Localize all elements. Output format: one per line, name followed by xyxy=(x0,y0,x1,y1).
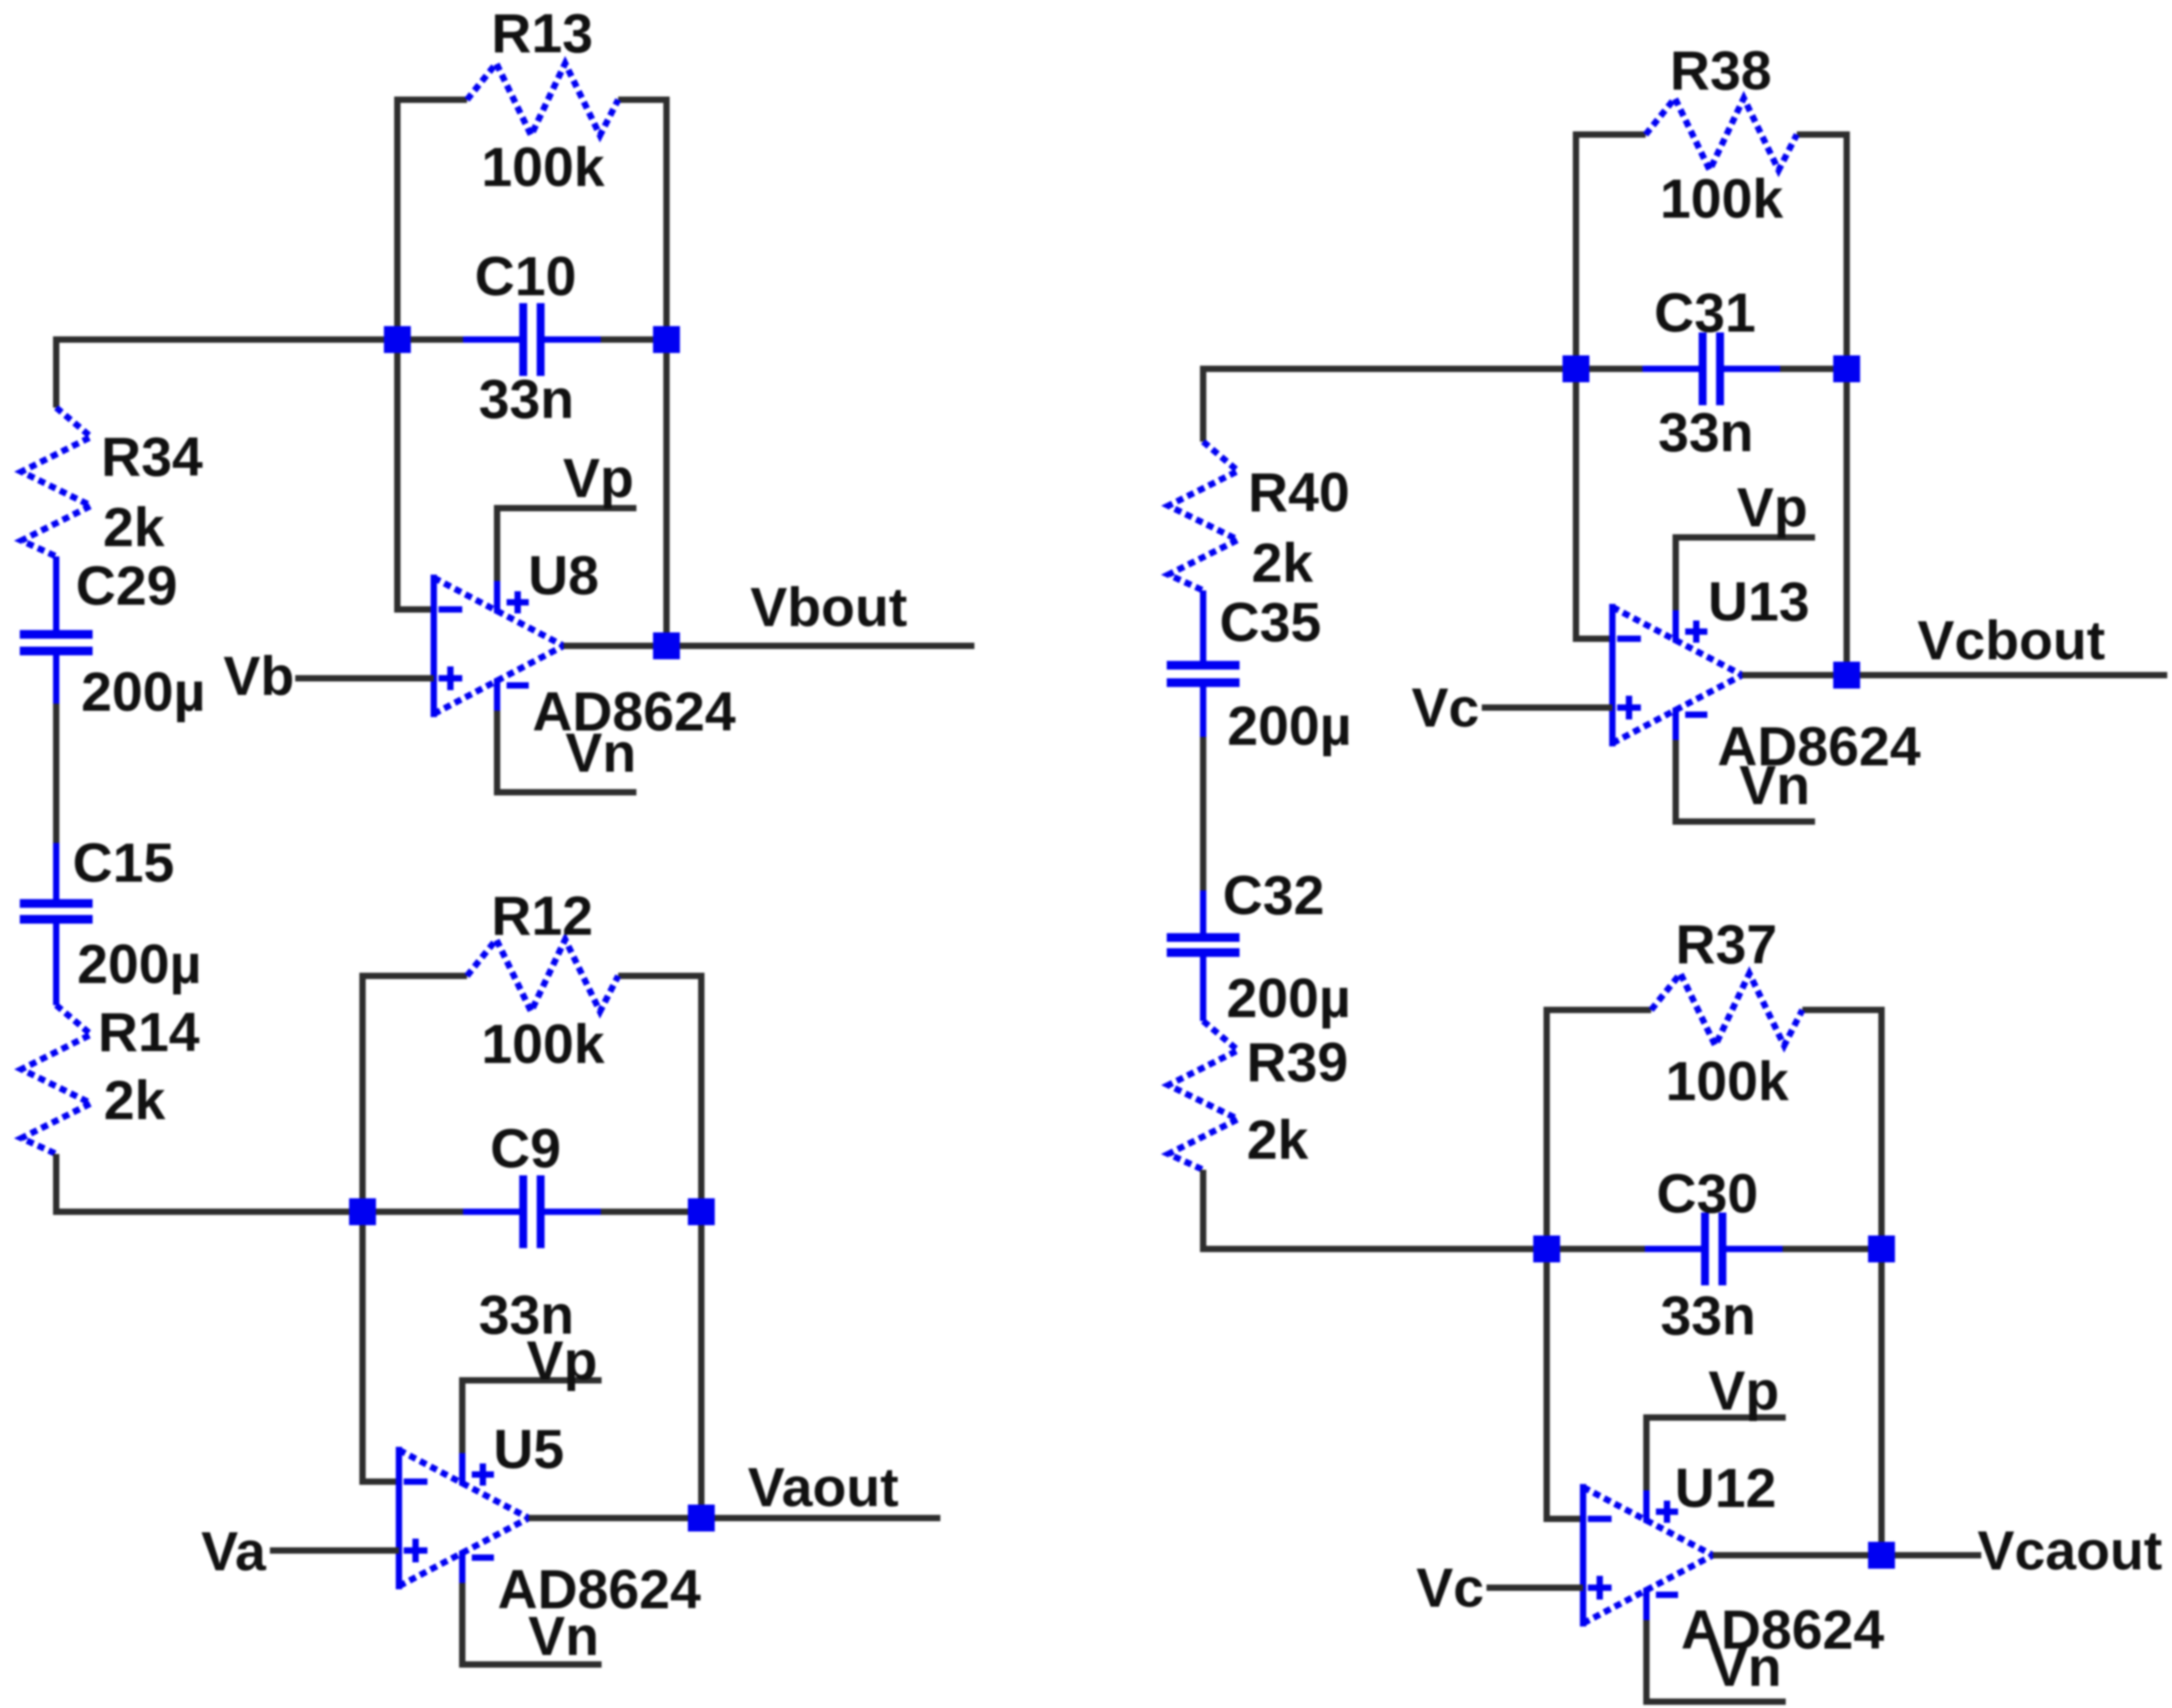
svg-text:U13: U13 xyxy=(1708,571,1809,632)
capacitor C30 xyxy=(1645,1213,1783,1285)
op-amp U8 AD8624 xyxy=(434,575,564,717)
svg-text:C15: C15 xyxy=(73,832,174,894)
svg-text:C31: C31 xyxy=(1654,282,1756,343)
wire: left chain bottom corner xyxy=(56,1154,363,1212)
wire: input Vb to U8 xyxy=(295,675,434,681)
power Vp wire of U12 xyxy=(1646,1418,1786,1490)
wire: U13 output-node vertical xyxy=(1844,131,1850,675)
wire: input Vc to U12 xyxy=(1487,1585,1583,1591)
svg-text:100k: 100k xyxy=(1660,168,1783,230)
wire: output net Vaout xyxy=(529,1515,940,1521)
svg-text:100k: 100k xyxy=(481,1013,605,1075)
wire: input Va to U5 xyxy=(270,1547,399,1554)
junction U5 output node xyxy=(688,1505,715,1532)
svg-text:Vp: Vp xyxy=(563,447,633,509)
svg-text:R12: R12 xyxy=(492,885,593,947)
wire: U13 inverting-node vertical xyxy=(1576,131,1612,639)
svg-text:200µ: 200µ xyxy=(1227,695,1351,757)
svg-text:Vb: Vb xyxy=(223,645,294,707)
svg-text:C30: C30 xyxy=(1657,1163,1758,1224)
svg-text:R39: R39 xyxy=(1247,1031,1348,1093)
wire: U8 feedback top xyxy=(397,97,666,103)
svg-text:2k: 2k xyxy=(1251,532,1313,594)
svg-text:Vcbout: Vcbout xyxy=(1917,609,2105,671)
svg-text:U8: U8 xyxy=(528,545,598,606)
svg-text:R37: R37 xyxy=(1676,913,1777,975)
wire: right chain bottom corner xyxy=(1203,1170,1547,1249)
svg-text:2k: 2k xyxy=(103,496,165,558)
power Vn wire of U13 xyxy=(1676,740,1815,822)
junction U5 feedback-right node xyxy=(688,1198,715,1225)
wire: left chain top corner xyxy=(56,340,397,408)
svg-text:200µ: 200µ xyxy=(77,933,201,995)
wire: U5 feedback top xyxy=(363,973,701,979)
resistor R14 xyxy=(21,1005,91,1154)
wire: right chain top corner xyxy=(1203,369,1576,442)
capacitor C10 xyxy=(463,303,601,376)
svg-text:Vbout: Vbout xyxy=(750,576,907,638)
op-amp U13 AD8624 xyxy=(1612,604,1742,746)
wire: U8 inverting-node vertical xyxy=(397,97,434,609)
power Vp wire of U5 xyxy=(462,1380,602,1453)
junction U12 output node xyxy=(1868,1542,1895,1569)
wire: U12 summing-node horizontal xyxy=(1547,1246,1882,1252)
svg-text:Vaout: Vaout xyxy=(748,1456,899,1518)
capacitor C32 xyxy=(1167,890,1240,1021)
junction U8 feedback-right node xyxy=(653,326,680,353)
junction U12 inverting node xyxy=(1533,1235,1560,1262)
wire: input Vc to U13 xyxy=(1482,704,1612,711)
wire: U13 summing-node horizontal xyxy=(1576,366,1847,372)
wire: U12 feedback top xyxy=(1547,1007,1882,1013)
svg-text:U5: U5 xyxy=(493,1418,564,1480)
svg-text:Vn: Vn xyxy=(528,1605,598,1667)
wire: output net Vcbout xyxy=(1742,672,2167,678)
wire: U8 output-node vertical xyxy=(663,97,670,646)
junction U13 feedback-right node xyxy=(1833,355,1860,382)
svg-text:33n: 33n xyxy=(479,368,575,430)
svg-text:2k: 2k xyxy=(104,1069,165,1131)
svg-text:C10: C10 xyxy=(475,245,576,307)
junction U5 inverting node xyxy=(349,1198,376,1225)
resistor R40 xyxy=(1168,442,1238,590)
svg-text:R34: R34 xyxy=(101,426,203,488)
junction U8 inverting node xyxy=(384,326,411,353)
wire: output net Vbout xyxy=(564,643,974,649)
svg-text:Vc: Vc xyxy=(1416,1557,1484,1619)
svg-text:R14: R14 xyxy=(98,1001,199,1063)
svg-text:R38: R38 xyxy=(1670,40,1771,101)
capacitor C15 xyxy=(20,843,93,1005)
svg-text:C35: C35 xyxy=(1220,591,1321,653)
op-amp U5 AD8624 xyxy=(399,1447,529,1589)
svg-text:R13: R13 xyxy=(492,2,593,64)
wire: U12 inverting-node vertical xyxy=(1547,1007,1583,1519)
wire: U5 summing-node horizontal xyxy=(363,1209,701,1215)
wire: U5 output-node vertical xyxy=(698,973,704,1518)
capacitor C31 xyxy=(1642,332,1780,405)
svg-text:C29: C29 xyxy=(76,555,177,617)
svg-text:Vc: Vc xyxy=(1411,677,1479,738)
capacitor C29 xyxy=(20,556,93,707)
svg-text:Vcaout: Vcaout xyxy=(1977,1520,2162,1581)
wire: right chain between C35 and C32 xyxy=(1200,737,1206,893)
wire: U12 output-node vertical xyxy=(1878,1007,1885,1555)
svg-text:Vp: Vp xyxy=(1708,1360,1779,1421)
wire: U5 inverting-node vertical xyxy=(363,973,399,1482)
svg-text:33n: 33n xyxy=(1658,401,1754,463)
resistor R13 xyxy=(467,63,618,135)
svg-text:200µ: 200µ xyxy=(81,661,205,723)
resistor R37 xyxy=(1651,974,1802,1046)
capacitor C35 xyxy=(1167,590,1240,740)
svg-text:R40: R40 xyxy=(1248,461,1350,523)
svg-text:Vn: Vn xyxy=(565,722,636,784)
capacitor C9 xyxy=(463,1175,601,1248)
svg-text:Va: Va xyxy=(201,1520,267,1582)
svg-text:200µ: 200µ xyxy=(1226,967,1350,1029)
svg-text:100k: 100k xyxy=(481,136,605,198)
wire: U13 feedback top xyxy=(1576,131,1847,138)
svg-text:33n: 33n xyxy=(1661,1285,1756,1346)
svg-text:U12: U12 xyxy=(1675,1457,1776,1519)
resistor R12 xyxy=(467,939,618,1012)
junction U12 feedback-right node xyxy=(1868,1235,1895,1262)
op-amp U12 AD8624 xyxy=(1583,1484,1713,1626)
svg-text:Vp: Vp xyxy=(526,1330,597,1391)
resistor R39 xyxy=(1168,1021,1238,1170)
resistor R34 xyxy=(21,408,91,556)
svg-text:C9: C9 xyxy=(490,1118,560,1179)
junction U13 inverting node xyxy=(1563,355,1589,382)
junction U13 output node xyxy=(1833,662,1860,689)
wire: left chain between C29 and C15 xyxy=(53,704,59,845)
junction U8 output node xyxy=(653,632,680,659)
svg-text:Vn: Vn xyxy=(1711,1636,1781,1698)
svg-text:2k: 2k xyxy=(1247,1109,1308,1171)
power Vn wire of U5 xyxy=(462,1583,602,1664)
svg-text:C32: C32 xyxy=(1223,864,1324,926)
svg-text:Vp: Vp xyxy=(1737,476,1807,538)
power Vp wire of U8 xyxy=(497,508,636,581)
svg-text:100k: 100k xyxy=(1665,1050,1789,1112)
svg-text:Vn: Vn xyxy=(1739,754,1809,816)
resistor R38 xyxy=(1646,98,1797,170)
power Vn wire of U8 xyxy=(497,711,636,792)
wire: U8 summing-node horizontal xyxy=(397,336,666,343)
wire: output net Vcaout xyxy=(1713,1552,1981,1558)
power Vp wire of U13 xyxy=(1676,537,1815,610)
power Vn wire of U12 xyxy=(1646,1620,1786,1702)
